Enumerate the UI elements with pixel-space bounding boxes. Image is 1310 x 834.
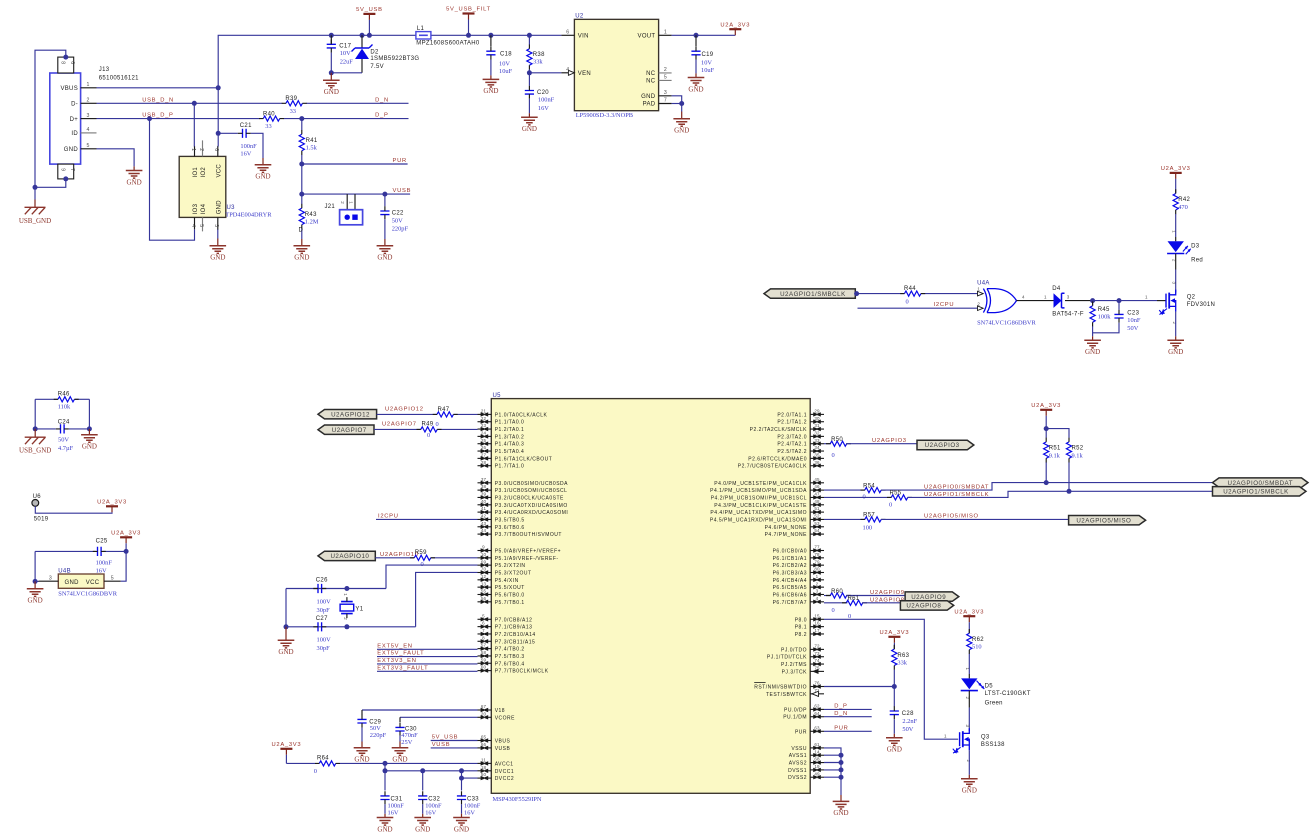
svg-text:470: 470 (1178, 204, 1188, 211)
svg-text:2: 2 (1172, 259, 1177, 262)
svg-text:P8.2: P8.2 (795, 632, 807, 638)
port tag U2AGPIO1/SMBCLK (1213, 487, 1307, 496)
svg-text:GND: GND (483, 87, 498, 95)
ground GND (C33) (453, 814, 470, 834)
svg-text:U6: U6 (33, 494, 42, 500)
svg-text:P1.5/TA0.4: P1.5/TA0.4 (495, 449, 525, 455)
svg-text:39: 39 (481, 492, 487, 497)
svg-text:69: 69 (481, 559, 487, 564)
ground GND (C28) (886, 734, 903, 754)
svg-text:U2AGPIO1/SMBCLK: U2AGPIO1/SMBCLK (780, 291, 846, 298)
svg-text:P3.5/TB0.5: P3.5/TB0.5 (495, 517, 525, 523)
svg-text:62: 62 (814, 704, 820, 709)
svg-text:P6.1/CB1/A1: P6.1/CB1/A1 (773, 556, 807, 562)
svg-text:9.1k: 9.1k (1049, 452, 1061, 459)
wire D_P (PU.0) (824, 704, 872, 710)
svg-text:0: 0 (436, 421, 439, 428)
svg-text:1.5k: 1.5k (306, 145, 318, 152)
svg-text:1: 1 (190, 148, 196, 151)
capacitor C25 100nF (35, 539, 129, 582)
resistor R41 1.5k (299, 119, 318, 167)
port tag U2AGPIO7 (318, 425, 374, 434)
power port U2A_3V3 (AVCC) (271, 742, 301, 763)
svg-text:66: 66 (481, 742, 487, 747)
svg-text:C21: C21 (240, 123, 252, 129)
svg-text:25: 25 (481, 438, 487, 443)
wire crystal top net (286, 586, 386, 591)
resistor R55 0 (SMBCLK) (824, 491, 912, 509)
svg-text:R38: R38 (533, 52, 545, 58)
svg-text:MSP430F5529IPN: MSP430F5529IPN (493, 796, 542, 803)
svg-text:1: 1 (816, 574, 819, 579)
ground GND (U2 PAD) (673, 112, 690, 135)
svg-text:D+: D+ (70, 117, 79, 123)
svg-text:USB_GND: USB_GND (19, 447, 51, 455)
svg-text:USB_D_N: USB_D_N (142, 97, 174, 103)
wire DVCC rail (383, 763, 478, 780)
svg-text:34: 34 (814, 445, 820, 450)
svg-text:R51: R51 (1049, 446, 1061, 452)
svg-text:P8.1: P8.1 (795, 625, 807, 631)
resistor R52 9.1k (1066, 438, 1083, 494)
svg-text:0: 0 (832, 607, 835, 614)
ground GND (R45/C23) (1084, 336, 1101, 356)
svg-text:C23: C23 (1127, 310, 1139, 316)
power port U2A_3V3 (U4B) (111, 531, 141, 552)
svg-text:1SMB5922BT3G: 1SMB5922BT3G (370, 56, 419, 62)
svg-text:U2AGPIO10: U2AGPIO10 (380, 552, 419, 558)
svg-text:110k: 110k (58, 404, 71, 411)
svg-text:U2A_3V3: U2A_3V3 (111, 531, 141, 537)
svg-text:50V: 50V (58, 436, 69, 443)
svg-text:PJ.3/TCK: PJ.3/TCK (782, 669, 808, 675)
svg-text:2: 2 (965, 697, 970, 700)
svg-text:67: 67 (481, 704, 487, 709)
svg-text:71: 71 (814, 688, 820, 693)
svg-text:46: 46 (814, 484, 820, 489)
svg-text:C18: C18 (500, 52, 512, 58)
svg-text:C26: C26 (316, 578, 328, 584)
svg-text:J21: J21 (325, 204, 336, 210)
wire U4B GND (33, 579, 39, 584)
svg-text:R47: R47 (438, 407, 450, 413)
capacitor C22 220pF (380, 194, 408, 239)
power port U2A_3V3 (U6) (97, 500, 127, 514)
svg-text:FDV301N: FDV301N (1187, 302, 1215, 308)
svg-text:3: 3 (816, 589, 819, 594)
wire XT2IN (386, 565, 478, 588)
resistor R40 33 (259, 111, 284, 130)
ground GND (C20) (521, 113, 538, 133)
wire U2AGPIO1/SMBCLK (908, 491, 1301, 498)
svg-text:20: 20 (481, 711, 487, 716)
svg-text:PUR: PUR (834, 725, 848, 731)
svg-text:P8.0: P8.0 (795, 617, 807, 623)
resistor R57 100 (MISO) (824, 513, 1069, 532)
svg-text:GND: GND (255, 173, 270, 181)
svg-text:16V: 16V (464, 810, 475, 817)
svg-text:C25: C25 (96, 539, 108, 545)
svg-text:P7.7/TB0CLK/MCLK: P7.7/TB0CLK/MCLK (495, 669, 549, 675)
svg-text:U2A_3V3: U2A_3V3 (720, 22, 750, 28)
svg-text:40: 40 (481, 499, 487, 504)
capacitor C27 30pF (313, 616, 331, 652)
svg-text:49: 49 (814, 771, 820, 776)
svg-text:4: 4 (1022, 294, 1025, 299)
svg-text:7: 7 (482, 628, 485, 633)
power port U2A_3V3 (at U2 output) (720, 22, 750, 35)
svg-text:47: 47 (814, 492, 820, 497)
svg-text:5: 5 (482, 613, 485, 618)
capacitor C33 100nF (457, 778, 481, 817)
svg-text:6: 6 (69, 61, 75, 64)
svg-text:45: 45 (814, 477, 820, 482)
capacitor C20 100nF (525, 73, 555, 113)
svg-text:C32: C32 (428, 797, 440, 803)
svg-text:R52: R52 (1072, 446, 1084, 452)
svg-text:IO4: IO4 (201, 203, 207, 214)
port tag U2AGPIO12 (318, 410, 377, 419)
svg-text:GND: GND (962, 787, 977, 795)
jumper J21 (325, 194, 363, 225)
svg-text:22: 22 (481, 416, 487, 421)
wire VBUS net (J13 pin1 to rail) (97, 33, 562, 91)
svg-text:VCC: VCC (86, 580, 100, 586)
svg-text:IO3: IO3 (193, 203, 199, 214)
wire crystal bottom net (284, 589, 416, 630)
svg-text:17: 17 (814, 628, 820, 633)
wire USB_D_P / D_P (97, 113, 409, 121)
svg-text:33k: 33k (533, 58, 543, 65)
diode D4 BAT54-7-F (1052, 286, 1092, 318)
ground GND (U3 pin3) (210, 230, 227, 262)
svg-text:EXT5V_FAULT: EXT5V_FAULT (377, 651, 424, 657)
svg-text:DVSS1: DVSS1 (788, 768, 807, 774)
svg-text:33: 33 (265, 123, 271, 130)
power port U2A_3V3 (R51/R52 pullups) (1031, 403, 1069, 438)
svg-text:76: 76 (814, 681, 820, 686)
svg-text:5: 5 (664, 75, 667, 81)
svg-text:24: 24 (481, 430, 487, 435)
ground GND (crystal caps) (278, 627, 295, 656)
svg-text:U2AGPIO12: U2AGPIO12 (385, 407, 424, 413)
svg-text:68: 68 (814, 757, 820, 762)
svg-text:72: 72 (814, 644, 820, 649)
svg-text:MPZ1608S600ATAH0: MPZ1608S600ATAH0 (416, 41, 480, 47)
svg-text:EXT3V3_FAULT: EXT3V3_FAULT (377, 665, 428, 671)
svg-text:1: 1 (977, 286, 980, 291)
svg-text:PUR: PUR (795, 729, 807, 735)
svg-text:1: 1 (1145, 294, 1148, 299)
power port 5V_USB (356, 7, 383, 35)
svg-text:510: 510 (972, 644, 982, 651)
svg-text:2: 2 (664, 67, 667, 73)
connector J13 (USB) 65100516121 (50, 57, 139, 179)
svg-text:U2A_3V3: U2A_3V3 (271, 742, 301, 748)
port tag U2AGPIO0/SMBDAT (1213, 478, 1309, 487)
svg-text:USB_GND: USB_GND (19, 217, 51, 225)
capacitor C18 10uF (486, 33, 512, 76)
svg-text:PJ.2/TMS: PJ.2/TMS (781, 662, 807, 668)
svg-text:U2A_3V3: U2A_3V3 (954, 609, 984, 615)
svg-text:C19: C19 (702, 52, 714, 58)
svg-text:50V: 50V (1127, 325, 1138, 332)
svg-text:TPD4E004DRYR: TPD4E004DRYR (225, 211, 272, 218)
ground GND (C30) (392, 742, 409, 764)
svg-text:P5.5/XOUT: P5.5/XOUT (495, 585, 525, 591)
wire 5V_USB to VBUS pin (431, 735, 478, 741)
resistor R38 33k (527, 33, 545, 76)
svg-text:10uF: 10uF (499, 68, 513, 75)
svg-text:U2: U2 (575, 14, 584, 20)
svg-text:65: 65 (481, 735, 487, 740)
svg-text:0: 0 (427, 432, 430, 439)
svg-text:AVCC1: AVCC1 (495, 761, 514, 767)
svg-text:100V: 100V (317, 599, 332, 606)
svg-text:220pF: 220pF (370, 732, 387, 739)
svg-text:1: 1 (965, 668, 970, 671)
svg-text:30pF: 30pF (317, 645, 331, 652)
svg-text:U2A_3V3: U2A_3V3 (1031, 403, 1061, 409)
resistor R64 0 (286, 756, 477, 776)
svg-text:7: 7 (664, 98, 667, 104)
microcontroller U5 MSP430F5529IPN body (491, 393, 810, 803)
svg-text:D3: D3 (1191, 243, 1200, 249)
wire XOR output to D4 (1017, 294, 1054, 300)
svg-text:16V: 16V (240, 151, 251, 158)
svg-text:2: 2 (340, 201, 345, 204)
svg-text:75: 75 (814, 665, 820, 670)
svg-text:D2: D2 (370, 50, 379, 56)
svg-text:IO2: IO2 (201, 167, 207, 178)
svg-text:V18: V18 (495, 708, 505, 714)
svg-text:VBUS: VBUS (60, 86, 78, 92)
svg-text:2: 2 (198, 148, 204, 151)
resistor R42 470 (1173, 189, 1190, 237)
svg-text:64: 64 (814, 711, 820, 716)
svg-text:2: 2 (87, 98, 90, 104)
svg-text:13: 13 (481, 581, 487, 586)
capacitor C28 2.2nF (890, 687, 918, 734)
resistor R39 33 (282, 96, 307, 115)
svg-text:1.2M: 1.2M (305, 219, 319, 226)
svg-text:43: 43 (481, 521, 487, 526)
mounting hole U6 5019 (32, 494, 112, 522)
svg-text:U2AGPIO8: U2AGPIO8 (906, 603, 941, 610)
svg-text:48: 48 (814, 499, 820, 504)
ground GND (R43) (294, 239, 311, 262)
svg-text:R42: R42 (1178, 197, 1190, 203)
port tag U2AGPIO5/MISO (1069, 516, 1146, 525)
svg-text:23: 23 (481, 423, 487, 428)
svg-text:U4A: U4A (977, 281, 990, 287)
svg-text:P7.6/TB0.4: P7.6/TB0.4 (495, 661, 525, 667)
svg-text:10V: 10V (701, 59, 712, 66)
svg-text:NC: NC (646, 79, 656, 85)
wire U3 pin4 loop to D+ line (150, 119, 195, 241)
svg-text:D_P: D_P (834, 704, 847, 710)
svg-text:100k: 100k (1098, 314, 1112, 321)
svg-text:U2A_3V3: U2A_3V3 (97, 500, 127, 506)
svg-text:R59: R59 (415, 550, 427, 556)
svg-text:GND: GND (278, 648, 293, 656)
power port 5V_USB_FILT (446, 7, 491, 38)
wire VSS bus to ground (824, 748, 844, 795)
svg-text:2: 2 (343, 617, 348, 620)
wire PUR (pin 63) (824, 725, 872, 731)
svg-text:BAT54-7-F: BAT54-7-F (1052, 312, 1084, 318)
svg-text:P3.6/TB0.6: P3.6/TB0.6 (495, 525, 525, 531)
capacitor C24 4.7uF (33, 399, 92, 452)
svg-text:PU.1/DM: PU.1/DM (783, 715, 807, 721)
svg-text:54: 54 (814, 528, 820, 533)
resistor R63 33k (892, 645, 910, 687)
wire VUSB (299, 164, 411, 197)
svg-text:AVSS1: AVSS1 (789, 753, 807, 759)
svg-text:10V: 10V (340, 50, 351, 57)
svg-text:P6.5/CB5/A5: P6.5/CB5/A5 (773, 585, 807, 591)
svg-text:6: 6 (482, 621, 485, 626)
wire XT2OUT (416, 572, 478, 626)
wire U2AGPIO10 (375, 552, 477, 558)
svg-text:L1: L1 (417, 26, 425, 32)
svg-text:R63: R63 (897, 653, 909, 659)
svg-text:C24: C24 (58, 420, 70, 426)
ground GND (Q2) (1167, 336, 1184, 356)
resistor R54 0 (SMBDAT) (824, 483, 886, 500)
svg-text:33: 33 (290, 108, 296, 115)
svg-text:R61: R61 (848, 596, 860, 602)
svg-text:P4.3/PM_UCB1CLK/PM_UCA1STE: P4.3/PM_UCB1CLK/PM_UCA1STE (714, 503, 807, 509)
wire XOR input 1 (854, 291, 977, 296)
resistor R62 510 (967, 629, 985, 674)
ground GND (Q3) (961, 775, 978, 795)
svg-text:P6.6/CB6/A6: P6.6/CB6/A6 (773, 592, 807, 598)
svg-text:R57: R57 (863, 513, 875, 519)
svg-text:3: 3 (965, 725, 970, 728)
svg-text:U2AGPIO7: U2AGPIO7 (332, 427, 367, 434)
svg-text:DVCC1: DVCC1 (495, 769, 514, 775)
svg-text:J13: J13 (99, 67, 110, 73)
svg-text:1: 1 (87, 82, 90, 88)
svg-text:100nF: 100nF (240, 143, 257, 150)
svg-text:GND: GND (210, 254, 225, 262)
svg-text:VUSB: VUSB (432, 742, 451, 748)
svg-text:D-: D- (71, 102, 78, 108)
svg-text:P6.0/CB0/A0: P6.0/CB0/A0 (773, 549, 807, 555)
transistor Q3 BSS138 (953, 708, 1005, 775)
wire EXT3V3_FAULT (377, 665, 478, 671)
svg-text:P5.2/XT2IN: P5.2/XT2IN (495, 563, 526, 569)
svg-text:U2AGPIO9: U2AGPIO9 (870, 590, 905, 596)
svg-text:R39: R39 (285, 96, 297, 102)
ground GND (C32) (414, 814, 431, 834)
svg-text:60: 60 (481, 665, 487, 670)
svg-text:P2.3/TA2.0: P2.3/TA2.0 (777, 434, 807, 440)
svg-text:56: 56 (481, 596, 487, 601)
svg-text:P1.0/TA0CLK/ACLK: P1.0/TA0CLK/ACLK (495, 412, 548, 418)
svg-text:2: 2 (977, 301, 980, 306)
svg-text:VEN: VEN (578, 71, 591, 77)
resistor R46 110k (35, 392, 89, 411)
svg-text:Y1: Y1 (355, 606, 363, 612)
svg-text:U2AGPIO8: U2AGPIO8 (870, 598, 905, 604)
svg-text:C27: C27 (316, 616, 328, 622)
svg-text:P5.3/XT2OUT: P5.3/XT2OUT (495, 570, 532, 576)
svg-text:78: 78 (814, 552, 820, 557)
svg-text:U2AGPIO9: U2AGPIO9 (911, 594, 946, 601)
resistor R50 0 (824, 437, 917, 459)
svg-text:GND: GND (216, 200, 222, 215)
svg-text:55: 55 (481, 589, 487, 594)
svg-text:Q3: Q3 (981, 734, 990, 740)
resistor R51 9.1k (1044, 429, 1061, 486)
svg-text:Green: Green (985, 701, 1003, 707)
wire VUSB to VUSB pin (431, 742, 478, 748)
svg-text:P2.2/TA2CLK/SMCLK: P2.2/TA2CLK/SMCLK (750, 427, 807, 433)
svg-text:U2AGPIO1/SMBCLK: U2AGPIO1/SMBCLK (1223, 489, 1289, 496)
wire VEN (529, 72, 561, 74)
transistor Q2 FDV301N (1159, 270, 1215, 337)
LED D5 Green (961, 668, 1031, 708)
wire D_N (PU.1) (824, 711, 872, 717)
svg-text:VBUS: VBUS (495, 739, 511, 745)
svg-text:3: 3 (213, 224, 219, 227)
svg-text:P5.7/TB0.1: P5.7/TB0.1 (495, 600, 525, 606)
svg-text:P5.6/TB0.0: P5.6/TB0.0 (495, 592, 525, 598)
svg-text:11: 11 (481, 758, 486, 763)
svg-text:P2.6/RTCCLK/DMAE0: P2.6/RTCCLK/DMAE0 (748, 456, 807, 462)
svg-text:GND: GND (82, 443, 97, 451)
port tag U2AGPIO3 (917, 440, 974, 449)
svg-text:74: 74 (814, 658, 820, 663)
svg-text:P1.3/TA0.2: P1.3/TA0.2 (495, 434, 525, 440)
resistor R60 0 (824, 589, 905, 614)
svg-text:GND: GND (28, 597, 43, 605)
svg-text:57: 57 (481, 643, 487, 648)
svg-text:2: 2 (1172, 322, 1177, 325)
svg-text:GND: GND (415, 825, 430, 833)
svg-text:25V: 25V (401, 739, 412, 746)
wire USB_D_N / D_N (97, 97, 409, 105)
svg-text:P3.7/TB0OUTH/SVMOUT: P3.7/TB0OUTH/SVMOUT (495, 532, 562, 538)
resistor R59 0 (410, 550, 435, 568)
svg-text:RST/NMI/SBWTDIO: RST/NMI/SBWTDIO (754, 685, 807, 691)
power port U2A_3V3 (D3) (1161, 166, 1191, 189)
svg-text:P4.2/PM_UCB1SOMI/PM_UCB1SCL: P4.2/PM_UCB1SOMI/PM_UCB1SCL (711, 495, 807, 501)
svg-text:4: 4 (566, 67, 569, 73)
crystal Y1 (340, 593, 364, 620)
svg-text:53: 53 (814, 521, 820, 526)
resistor R49 0 (417, 421, 442, 439)
svg-text:GND: GND (1168, 348, 1183, 356)
svg-text:C33: C33 (467, 797, 479, 803)
svg-text:P1.1/TA0.0: P1.1/TA0.0 (495, 420, 525, 426)
svg-text:37: 37 (481, 477, 487, 482)
wire XOR input 2 (I2CPU) (858, 302, 978, 308)
svg-text:C22: C22 (392, 211, 404, 217)
svg-text:41: 41 (481, 506, 487, 511)
svg-text:U3: U3 (227, 205, 236, 211)
svg-text:R55: R55 (890, 491, 902, 497)
svg-text:U2AGPIO0/SMBDAT: U2AGPIO0/SMBDAT (1228, 480, 1294, 487)
capacitor C31 100nF (380, 771, 404, 817)
svg-text:P5.1/A9/VREF-/VEREF-: P5.1/A9/VREF-/VEREF- (495, 556, 559, 562)
wire U2AGPIO12 (377, 407, 478, 415)
svg-text:0: 0 (832, 452, 835, 459)
svg-text:VUSB: VUSB (495, 746, 511, 752)
svg-text:3: 3 (1171, 282, 1176, 285)
